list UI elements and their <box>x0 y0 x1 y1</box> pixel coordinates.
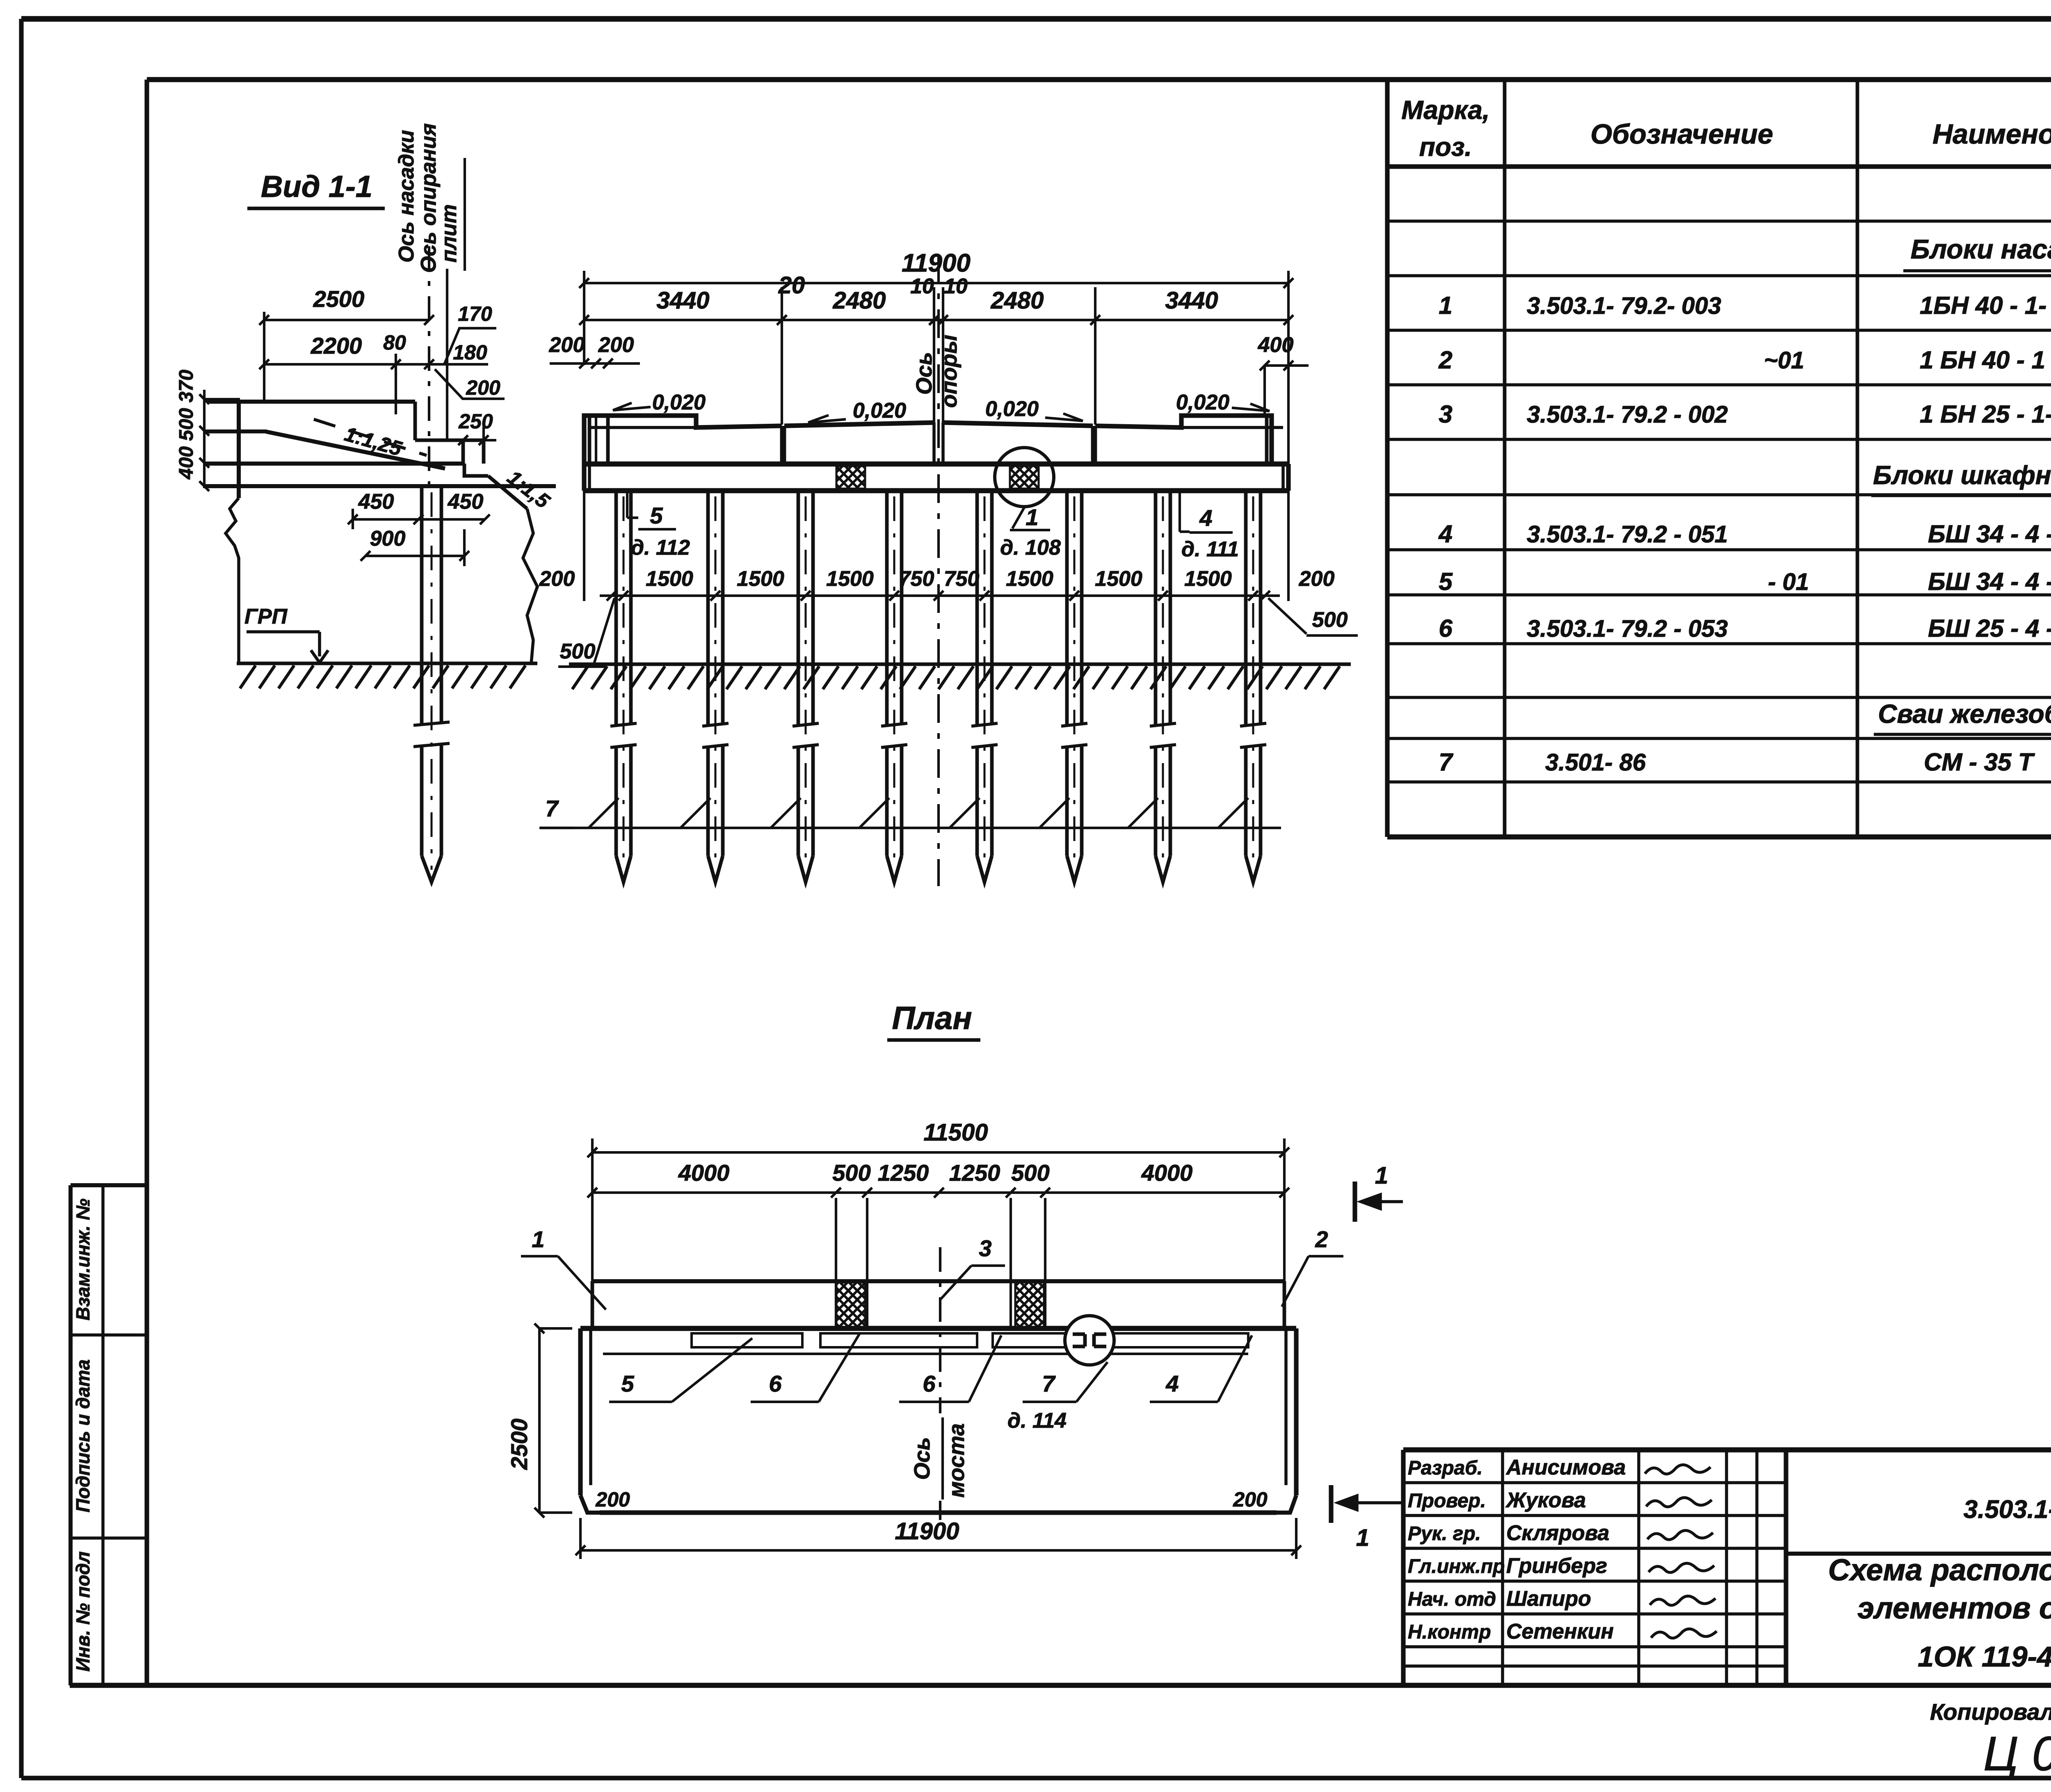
section: cabinet wall outline <box>207 400 415 404</box>
svg-text:поз.: поз. <box>1419 132 1472 162</box>
svg-text:1: 1 <box>1356 1525 1369 1551</box>
svg-text:200: 200 <box>598 333 634 357</box>
svg-text:450: 450 <box>448 490 484 514</box>
plan: section mark 1-1 bottom <box>1329 1485 1333 1523</box>
pile at x=2835 <box>1154 491 1158 725</box>
svg-text:Провер.: Провер. <box>1408 1490 1486 1512</box>
svg-text:400 500 370: 400 500 370 <box>176 370 197 480</box>
signature table <box>1403 1481 1786 1484</box>
svg-text:БШ 25 - 4 - 5: БШ 25 - 4 - 5 <box>1928 615 2051 642</box>
svg-text:4000: 4000 <box>678 1160 730 1186</box>
plan: back wall band <box>592 1279 1284 1283</box>
svg-text:Нач. отд: Нач. отд <box>1408 1589 1496 1610</box>
svg-text:элементов опор: элементов опор <box>1857 1591 2051 1625</box>
svg-text:- 01: - 01 <box>1768 569 1809 595</box>
svg-text:200: 200 <box>1233 1488 1268 1511</box>
section: slope label 1:1,25 <box>314 419 427 455</box>
svg-text:опоры: опоры <box>937 335 962 408</box>
plan: bridge axis <box>939 1247 941 1413</box>
elevation: label 1/д.108 <box>1012 507 1024 528</box>
section: ground line <box>237 662 537 665</box>
svg-text:4: 4 <box>1199 505 1212 531</box>
svg-text:7: 7 <box>545 795 559 821</box>
svg-text:4: 4 <box>1438 520 1452 548</box>
svg-text:200: 200 <box>466 376 500 399</box>
svg-text:1 БН 25 - 1- 2: 1 БН 25 - 1- 2 <box>1920 400 2051 428</box>
svg-text:10: 10 <box>944 274 968 298</box>
pile at x=2619 <box>1065 491 1069 725</box>
svg-text:11900: 11900 <box>895 1518 959 1545</box>
svg-text:200: 200 <box>549 333 585 357</box>
svg-text:750: 750 <box>899 567 934 591</box>
svg-text:2500: 2500 <box>506 1419 532 1470</box>
svg-text:2200: 2200 <box>311 333 362 359</box>
plan: block joint bars <box>692 1333 802 1347</box>
svg-text:д. 114: д. 114 <box>1007 1409 1067 1433</box>
section: pile <box>420 486 424 723</box>
svg-text:БШ 34 - 4 - 3: БШ 34 - 4 - 3 <box>1928 520 2051 548</box>
elevation: top dim 11900 <box>584 282 1288 284</box>
svg-text:2500: 2500 <box>313 286 365 312</box>
svg-text:0,020: 0,020 <box>853 399 906 423</box>
plan: section mark 1-1 top <box>1352 1182 1357 1222</box>
section: top dims 2500 / 2200 80 <box>264 319 429 321</box>
pile at x=1744 <box>706 491 710 725</box>
svg-text:Рук. гр.: Рук. гр. <box>1408 1523 1481 1545</box>
svg-text:3: 3 <box>979 1235 991 1261</box>
svg-text:1: 1 <box>1375 1162 1388 1189</box>
svg-text:6: 6 <box>769 1371 782 1397</box>
svg-text:3440: 3440 <box>1165 287 1218 314</box>
parts table grid <box>1385 80 1389 837</box>
inner drawing frame <box>147 77 2051 82</box>
plan: dim 11900 <box>580 1549 1296 1552</box>
outer page frame <box>21 16 2051 22</box>
svg-text:1ОК 119-4: 1ОК 119-4 <box>1918 1641 2051 1673</box>
plan: detail circle 7 <box>1065 1316 1114 1365</box>
svg-text:250: 250 <box>458 410 493 433</box>
svg-text:400: 400 <box>1258 333 1294 357</box>
svg-text:170: 170 <box>458 302 492 325</box>
svg-text:1500: 1500 <box>1184 567 1232 591</box>
signatures <box>1645 1465 1711 1474</box>
svg-text:1500: 1500 <box>646 567 693 591</box>
svg-text:Блоки насадки: Блоки насадки <box>1911 234 2051 264</box>
section: right slope 1:1,5 <box>464 464 488 476</box>
svg-text:моста: моста <box>944 1423 969 1497</box>
svg-text:Н.контр: Н.контр <box>1408 1621 1491 1643</box>
svg-text:4: 4 <box>1165 1371 1179 1397</box>
elevation: pile cap (насадка) <box>584 462 1288 467</box>
svg-text:3.503.1- 79.2 - 051: 3.503.1- 79.2 - 051 <box>1527 521 1728 548</box>
section: wall right edge and bearing ledge <box>413 402 417 440</box>
elevation: detail circle on hatch <box>995 448 1054 507</box>
plan: dim row 4000/500/1250/1250/500/4000 <box>592 1191 1284 1194</box>
svg-text:3.503.1- 79.1- 040: 3.503.1- 79.1- 040 <box>1964 1495 2051 1524</box>
elevation: right dim 400 <box>1265 364 1309 367</box>
svg-text:Вид 1-1: Вид 1-1 <box>261 169 372 203</box>
left margin stamp <box>71 1183 146 1187</box>
svg-text:3.503.1- 79.2 - 053: 3.503.1- 79.2 - 053 <box>1527 615 1728 642</box>
elevation: 500 leader right <box>1268 598 1306 634</box>
svg-text:плит: плит <box>437 204 461 263</box>
svg-text:1500: 1500 <box>1095 567 1142 591</box>
elevation: dim row 3440/20/2480/10 10/2480/3440 <box>584 319 1288 321</box>
plan: 2500 dim <box>538 1328 541 1513</box>
svg-text:д. 108: д. 108 <box>1000 536 1061 560</box>
svg-text:2480: 2480 <box>832 287 886 314</box>
svg-text:Копировал: Копировал <box>1930 1699 2051 1725</box>
svg-text:4000: 4000 <box>1141 1160 1193 1186</box>
svg-text:1: 1 <box>1439 292 1452 319</box>
plan: dim 11500 <box>592 1151 1284 1154</box>
pile at x=1520 <box>614 491 618 725</box>
svg-text:Склярова: Склярова <box>1506 1521 1609 1545</box>
svg-text:500: 500 <box>560 640 596 663</box>
plan: hatch squares <box>836 1282 865 1328</box>
svg-text:1250: 1250 <box>878 1160 929 1186</box>
svg-text:11500: 11500 <box>924 1119 988 1146</box>
svg-text:~01: ~01 <box>1764 347 1804 374</box>
svg-text:Схема расположения: Схема расположения <box>1828 1553 2051 1587</box>
svg-text:Наименование: Наименование <box>1932 119 2051 150</box>
svg-text:Взам.инж. №: Взам.инж. № <box>72 1198 94 1320</box>
svg-text:1500: 1500 <box>737 567 784 591</box>
svg-text:500: 500 <box>1011 1160 1049 1186</box>
section: right break line <box>523 509 537 663</box>
svg-text:Обозначение: Обозначение <box>1590 119 1773 150</box>
svg-text:Ц 00632 - 02: Ц 00632 - 02 <box>1983 1727 2051 1781</box>
svg-text:Ось насадки: Ось насадки <box>395 130 418 263</box>
pile at x=1964 <box>797 491 800 725</box>
pile at x=2180 <box>885 491 889 725</box>
svg-text:Шапиро: Шапиро <box>1506 1587 1591 1611</box>
svg-text:БШ 34 - 4 - 4: БШ 34 - 4 - 4 <box>1928 568 2051 595</box>
svg-text:План: План <box>892 1000 972 1036</box>
svg-text:5: 5 <box>1439 568 1453 595</box>
svg-text:Гл.инж.пр: Гл.инж.пр <box>1408 1556 1505 1577</box>
svg-text:3: 3 <box>1439 400 1452 428</box>
section: left break edge <box>226 498 239 663</box>
svg-text:Сетенкин: Сетенкин <box>1506 1620 1614 1643</box>
svg-text:6: 6 <box>1439 615 1453 642</box>
pile at x=2400 <box>975 491 979 725</box>
svg-text:Гринберг: Гринберг <box>1506 1554 1607 1578</box>
elevation: ground line <box>569 663 1351 666</box>
svg-text:200: 200 <box>595 1488 630 1511</box>
svg-text:1250: 1250 <box>949 1160 1000 1186</box>
svg-text:3.503.1- 79.2- 003: 3.503.1- 79.2- 003 <box>1527 293 1721 319</box>
svg-text:80: 80 <box>383 331 406 354</box>
svg-text:2: 2 <box>1438 346 1452 374</box>
svg-text:11900: 11900 <box>902 249 971 277</box>
svg-text:Анисимова: Анисимова <box>1505 1456 1626 1479</box>
svg-text:900: 900 <box>370 527 406 551</box>
title block outline <box>1403 1447 2051 1453</box>
section: bearing ledge 250 <box>461 440 465 464</box>
svg-text:ГРП: ГРП <box>244 605 288 629</box>
elevation: bottom dims 200/1500x3/750/750/1500x3/200 <box>600 594 1280 597</box>
svg-text:1500: 1500 <box>1006 567 1053 591</box>
svg-text:7: 7 <box>1042 1371 1056 1397</box>
svg-text:200: 200 <box>1299 567 1335 591</box>
section: cap band <box>204 462 463 466</box>
svg-text:10: 10 <box>910 274 934 298</box>
svg-text:3.501- 86: 3.501- 86 <box>1545 749 1646 776</box>
pile at x=3055 <box>1244 491 1248 725</box>
svg-text:Марка,: Марка, <box>1401 95 1489 125</box>
svg-text:СМ - 35 Т: СМ - 35 Т <box>1924 748 2035 776</box>
svg-text:500: 500 <box>1312 608 1348 632</box>
svg-text:1: 1 <box>1025 504 1038 530</box>
svg-text:Сваи железобетонные: Сваи железобетонные <box>1878 699 2051 729</box>
svg-text:750: 750 <box>944 567 980 591</box>
svg-text:Ось: Ось <box>912 352 936 395</box>
svg-text:180: 180 <box>453 341 487 364</box>
svg-text:Жукова: Жукова <box>1505 1488 1586 1512</box>
svg-text:3.503.1- 79.2 - 002: 3.503.1- 79.2 - 002 <box>1527 401 1728 428</box>
svg-text:д. 111: д. 111 <box>1181 537 1239 561</box>
svg-text:450: 450 <box>358 490 394 514</box>
svg-text:2480: 2480 <box>990 287 1044 314</box>
elevation: pile item leader 7 <box>541 827 1281 829</box>
elevation: left dim 200 200 <box>550 362 640 365</box>
svg-text:5: 5 <box>621 1371 634 1397</box>
svg-text:1БН 40 - 1- 1: 1БН 40 - 1- 1 <box>1920 292 2051 319</box>
svg-text:0,020: 0,020 <box>1176 391 1229 414</box>
svg-text:1500: 1500 <box>826 567 874 591</box>
elevation: label 5/д.112 <box>626 491 628 518</box>
svg-text:Ось: Ось <box>910 1437 934 1480</box>
svg-text:0,020: 0,020 <box>652 391 706 414</box>
svg-text:1: 1 <box>532 1226 544 1252</box>
svg-text:20: 20 <box>778 272 805 299</box>
svg-text:0,020: 0,020 <box>985 397 1039 421</box>
elevation: cabinet wall block outline <box>584 416 782 464</box>
svg-text:Подпись и дата: Подпись и дата <box>72 1360 94 1513</box>
svg-text:д. 112: д. 112 <box>631 536 690 560</box>
elevation: label 4/д.111 <box>1179 491 1181 532</box>
svg-text:Разраб.: Разраб. <box>1408 1457 1482 1479</box>
svg-text:Инв. № подл: Инв. № подл <box>72 1552 94 1672</box>
elevation: pier axis (ось опоры) <box>937 254 940 886</box>
svg-text:6: 6 <box>923 1371 936 1397</box>
svg-text:2: 2 <box>1315 1226 1328 1252</box>
svg-text:1 БН 40 - 1 - 2: 1 БН 40 - 1 - 2 <box>1920 346 2051 374</box>
svg-text:Блоки шкафной стенки: Блоки шкафной стенки <box>1873 460 2051 490</box>
svg-text:500: 500 <box>832 1160 870 1186</box>
svg-text:200: 200 <box>539 567 575 591</box>
svg-text:7: 7 <box>1439 748 1453 776</box>
svg-text:5: 5 <box>650 503 663 528</box>
elevation: 500 leader left <box>594 598 614 664</box>
plan: pile cap rectangle <box>580 1326 1296 1331</box>
svg-text:3440: 3440 <box>656 287 709 314</box>
plan: cap edges <box>578 1328 582 1495</box>
